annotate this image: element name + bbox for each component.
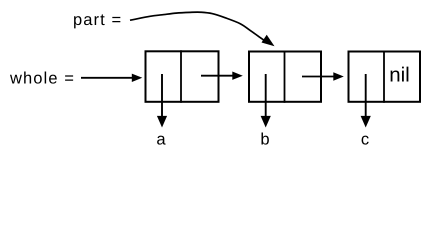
wire car pointer cell2 down	[265, 74, 267, 120]
wire car pointer cell1 down	[161, 74, 163, 120]
wire car pointer cell3 down	[365, 74, 367, 120]
label part =	[74, 14, 120, 28]
wire arrow whole to cell1	[81, 77, 134, 79]
cons cell 2 box	[249, 52, 321, 102]
label b	[261, 133, 268, 145]
label c	[362, 136, 369, 145]
wire cdr arrow cell1 to cell2	[201, 75, 235, 77]
label a	[157, 136, 165, 145]
wire curved arrow from part to cell2	[130, 12, 267, 42]
cons cell 3 box	[349, 52, 421, 102]
label whole =	[10, 72, 73, 84]
cons cell 1 box	[146, 51, 219, 102]
label nil	[391, 67, 409, 82]
wire cdr arrow cell2 to cell3	[302, 76, 336, 78]
